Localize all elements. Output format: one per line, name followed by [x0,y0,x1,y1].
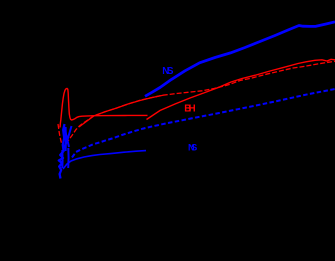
svg-text:NS: NS [162,66,174,77]
blue thin solid NS lower line [63,151,146,169]
blue cluster right bar [65,127,67,151]
blue cluster second vertical [61,150,63,168]
red solid spike curve (early transient, ends mid-plot) [60,88,148,127]
blue cluster cross stroke 2 [64,126,72,149]
red solid overlay on dashed diagonal (models coincide early) [79,95,163,127]
red solid BH curve (steep rise then flattening at right) [147,59,335,119]
svg-text:BH: BH [184,103,195,114]
blue cluster cross stroke 1 [64,126,69,147]
svg-text:NS: NS [188,142,197,152]
blue thick cluster squiggle (early oscillations) [59,124,65,179]
blue thick solid NS curve (upper, big rise) [145,22,335,97]
blue cluster short vertical [67,148,69,168]
red dashed curve BH (dip at left, long rise to right) [58,61,335,147]
blue dashed curve (lower model, rising to upper right) [72,89,335,158]
